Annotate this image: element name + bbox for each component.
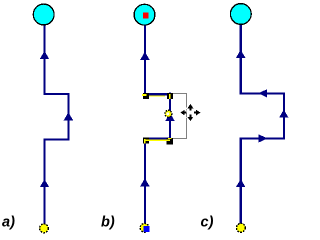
arrowhead left, c jog top horizontal	[258, 89, 267, 97]
node: a top terminal (cyan circle)	[33, 4, 54, 25]
selection highlight: yellow line along bottom jog segment	[146, 140, 170, 141]
wire: c main bottom vertical	[240, 137, 242, 223]
move cursor: white halo	[180, 104, 200, 121]
wire: c jog right vertical	[283, 92, 285, 138]
arrowhead up, c jog right vertical	[279, 110, 288, 118]
svg-text:c): c)	[201, 215, 214, 231]
grab circle dashed black ring	[165, 110, 172, 117]
selection highlight: yellow stripe through bottom-left handle	[144, 139, 146, 144]
wire: b jog middle vertical	[169, 92, 171, 138]
arrowhead up, c main top segment	[236, 50, 245, 58]
handle: b jog top-left (black square)	[143, 93, 149, 99]
handle: b jog bottom-left (black square)	[143, 138, 149, 144]
arrowhead right, c jog bottom horizontal	[259, 134, 268, 142]
wire: a main bottom vertical	[43, 138, 45, 224]
wire: b jog bottom horizontal	[145, 137, 171, 139]
wire: b jog top horizontal	[144, 93, 170, 95]
node: a bottom terminal (yellow circle, dashed ring)	[40, 224, 49, 233]
node: b top terminal (cyan circle)	[134, 4, 155, 25]
wire: b main top vertical	[144, 25, 146, 94]
handle: b jog top-right (black square)	[167, 93, 173, 99]
svg-text:a): a)	[2, 215, 15, 231]
wire: b main bottom vertical	[144, 137, 146, 223]
svg-text:b): b)	[101, 215, 115, 231]
wire: c jog bottom horizontal	[241, 137, 285, 139]
marker: blue selection square in b bottom terminal	[143, 226, 149, 232]
node: c top terminal (cyan circle)	[230, 4, 251, 25]
wire: a jog right vertical	[67, 93, 69, 140]
wire: c main top vertical	[240, 25, 242, 94]
arrowhead up, a main top segment	[40, 51, 49, 59]
selection highlight: yellow line along top jog segment	[149, 95, 165, 96]
arrowhead up, a main bottom segment	[40, 179, 49, 187]
wire: c jog top horizontal	[240, 92, 284, 94]
wire: a main top vertical	[43, 25, 45, 94]
handle: b jog bottom-right (black square)	[167, 138, 174, 144]
selection highlight: yellow notch on top-left handle	[142, 94, 146, 96]
node: b bottom terminal (yellow circle, dashed ring)	[140, 223, 149, 232]
wire: a jog top horizontal	[44, 93, 69, 95]
selection highlight: yellow stripe through top-right handle	[169, 94, 171, 99]
highlight inside grab circle	[167, 113, 170, 116]
gray dash re-drawn in cursor centre	[186, 113, 188, 117]
move cursor: black 4-way arrows	[180, 104, 200, 121]
arrowhead up, a jog vertical	[64, 112, 73, 120]
wire: a jog bottom horizontal	[45, 138, 70, 140]
marker: red selection square in b top terminal	[143, 13, 149, 19]
handle: segment midpoint grab circle (yellow)	[165, 110, 172, 117]
arrowhead up, b jog vertical	[165, 113, 174, 121]
selection highlight: yellow notch in bottom-right handle	[168, 138, 172, 139]
drag preview: gray outline of moved segment	[173, 93, 186, 138]
node: c bottom terminal (yellow circle, dashed ring)	[237, 223, 246, 232]
arrowhead up, b main top segment	[140, 52, 149, 60]
arrowhead up, c main bottom segment	[236, 179, 245, 187]
arrowhead up, b main bottom segment	[140, 178, 149, 186]
